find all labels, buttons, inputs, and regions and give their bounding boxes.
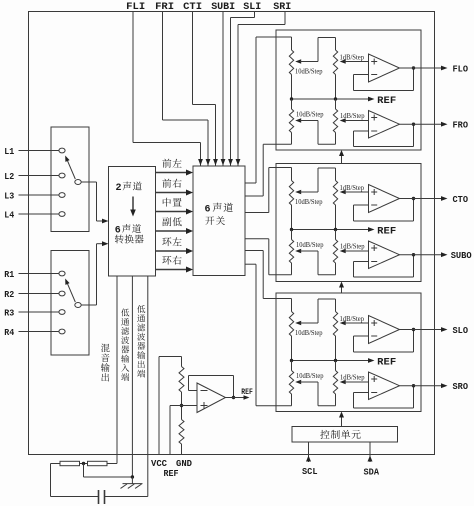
svg-text:10dB/Step: 10dB/Step [296, 241, 324, 249]
svg-text:SRO: SRO [453, 381, 469, 392]
L input selector switch box [51, 127, 89, 232]
wire feedback SRO [354, 384, 416, 408]
wire SLI input to switch [228, 12, 254, 166]
L selector common pole contact [75, 180, 81, 185]
op-amp buffer FLO [369, 54, 400, 82]
wiper tap CTO fine to op-amp [340, 190, 369, 194]
svg-text:SUBO: SUBO [451, 250, 472, 261]
wire feedback REF buffer [189, 376, 236, 400]
svg-text:2: 2 [116, 183, 122, 194]
svg-text:REF: REF [377, 96, 396, 107]
wire SRO input line [256, 405, 292, 407]
op-amp buffer SUBO [369, 241, 400, 269]
wiper tap FLO coarse [295, 38, 335, 64]
node REF rail group 3 [290, 357, 396, 368]
output CTO with pin label [400, 194, 469, 205]
svg-text:R4: R4 [4, 327, 14, 338]
node REF output [226, 388, 253, 400]
wire feedback SUBO [354, 253, 416, 277]
wiper tap SUBO coarse [295, 249, 335, 275]
wire SUBI input to switch [221, 12, 226, 166]
wire CTO input line [269, 168, 292, 181]
wire SRO pot tops to REF rail [292, 361, 336, 371]
op-amp buffer CTO [369, 185, 400, 213]
volume group 1 box [276, 30, 421, 150]
pin L3 with lead and contact [4, 190, 65, 201]
node REF rail group 2 [290, 226, 396, 237]
resistor divider lower (node to GND) [179, 406, 184, 455]
output SRO with pin label [400, 381, 469, 392]
pin R1 with lead and contact [4, 269, 65, 280]
resistor 1dB/Step fine volume SLO [333, 312, 364, 361]
capacitor C1 external [99, 490, 105, 504]
wiper tap CTO coarse [295, 168, 335, 194]
wire VCC rail [159, 357, 182, 455]
pin label SUBI [211, 2, 235, 13]
svg-text:SLI: SLI [243, 2, 261, 13]
op-amp U4 REF buffer [197, 383, 226, 413]
wire feedback CTO [354, 197, 416, 221]
output SUBO with pin label [400, 250, 472, 261]
wire low-pass filter output line (低通滤波器输出端) [137, 276, 148, 497]
svg-text:10dB/Step: 10dB/Step [295, 198, 323, 206]
wire low-pass filter input line (低通滤波器输入端) [121, 276, 132, 477]
svg-text:6: 6 [115, 225, 121, 236]
svg-text:1dB/Step: 1dB/Step [340, 53, 365, 61]
ground symbol [121, 484, 143, 489]
pin label FRI [155, 2, 174, 13]
pin SCL with wire [302, 442, 318, 477]
resistor 10dB/Step coarse volume CTO [289, 181, 323, 230]
wire FLI input to switch [133, 12, 203, 166]
svg-text:FLI: FLI [126, 2, 145, 13]
svg-text:R1: R1 [4, 269, 14, 280]
pin label REF [164, 468, 179, 479]
wiper tap SRO coarse [295, 380, 335, 406]
svg-text:REF: REF [377, 226, 396, 237]
wiper tap SLO coarse [295, 299, 335, 325]
wire mix output line (混音输出) [101, 276, 117, 464]
wiper tap FLO fine to op-amp [340, 59, 369, 63]
svg-text:SDA: SDA [364, 466, 380, 477]
wiper tap SLO fine to op-amp [340, 321, 369, 325]
wire SRI input to switch [236, 12, 285, 166]
wire capacitor to filter output line [105, 496, 148, 498]
resistor 1dB/Step fine volume FLO [333, 50, 364, 99]
output FLO with pin label [400, 64, 469, 75]
resistor 10dB/Step coarse volume SLO [289, 312, 323, 361]
svg-text:SCL: SCL [302, 466, 318, 477]
pin label FLI [126, 2, 145, 13]
wiper tap FRO fine to op-amp [340, 118, 369, 122]
svg-text:1dB/Step: 1dB/Step [340, 243, 365, 251]
resistor divider upper (VCC to node) [179, 357, 184, 406]
wire SL switch output bus [245, 251, 263, 299]
pin L2 with lead and contact [4, 171, 65, 182]
svg-text:10dB/Step: 10dB/Step [296, 372, 324, 380]
wiper tap SRO fine to op-amp [340, 380, 369, 384]
op-amp buffer SLO [369, 316, 400, 344]
wire R1 to capacitor [51, 464, 99, 497]
wire R common to converter [81, 241, 108, 305]
node R1-R2 junction [80, 462, 88, 465]
svg-text:L3: L3 [4, 190, 14, 201]
control unit block (控制单元) [292, 427, 398, 443]
svg-text:FRI: FRI [155, 2, 174, 13]
svg-text:1dB/Step: 1dB/Step [340, 315, 365, 323]
volume group 3 box [276, 293, 421, 412]
resistor 10dB/Step coarse volume SRO [289, 371, 324, 406]
svg-text:REF: REF [241, 388, 253, 397]
wire channel row 前右 converter to switch [156, 179, 194, 196]
R selector wiper arm [65, 279, 75, 303]
wire channel row 前左 converter to switch [156, 159, 194, 176]
R selector common pole contact [75, 303, 81, 308]
wire feedback FLO [354, 66, 416, 90]
wire CTI input to switch [193, 12, 218, 166]
svg-text:10dB/Step: 10dB/Step [295, 67, 323, 75]
pin L4 with lead and contact [4, 209, 65, 220]
wire control bus group2 to group1 [339, 150, 344, 164]
pin label CTI [183, 2, 202, 13]
wiper tap SUBO fine to op-amp [340, 249, 369, 253]
wire L common to converter [81, 182, 108, 223]
pin label SLI [243, 2, 261, 13]
output SLO with pin label [400, 325, 469, 336]
svg-text:R3: R3 [4, 307, 14, 318]
wire SUBO input line [269, 274, 292, 276]
svg-text:10dB/Step: 10dB/Step [295, 329, 323, 337]
wiper tap FRO coarse [295, 118, 335, 144]
svg-text:1dB/Step: 1dB/Step [340, 112, 365, 120]
svg-text:R2: R2 [4, 289, 14, 300]
L selector wiper arm [65, 156, 75, 180]
resistor R1 external [60, 461, 80, 465]
R input selector switch box [51, 251, 89, 356]
svg-text:FRO: FRO [453, 120, 469, 131]
svg-text:CTO: CTO [453, 194, 469, 205]
svg-text:L4: L4 [4, 209, 14, 220]
op-amp buffer FRO [369, 111, 400, 139]
wire channel row 副低 converter to switch [156, 217, 194, 234]
svg-text:1dB/Step: 1dB/Step [340, 374, 365, 382]
output FRO with pin label [400, 120, 469, 131]
op-amp buffer SRO [369, 372, 400, 400]
wire FRO pot tops to REF rail [292, 99, 336, 109]
2ch to 6ch converter block (2声道→6声道转换器) [109, 167, 156, 277]
wire feedback FRO [354, 123, 416, 147]
resistor 1dB/Step fine volume SUBO [333, 240, 365, 264]
node divider midpoint to + input and REF pin [170, 404, 197, 455]
pin R2 with lead and contact [4, 289, 65, 300]
volume group 2 box [276, 164, 421, 282]
resistor 1dB/Step fine volume SRO [333, 371, 365, 395]
wire SR switch output bus [245, 264, 256, 406]
pin label SRI [273, 2, 291, 13]
6-channel switch block (6声道 开关) [193, 166, 245, 276]
wire feedback SLO [354, 328, 416, 352]
svg-text:L1: L1 [4, 146, 14, 157]
svg-text:1dB/Step: 1dB/Step [340, 184, 365, 192]
wire FL switch output bus [245, 37, 256, 183]
svg-text:10dB/Step: 10dB/Step [296, 111, 324, 119]
wire FRO input line [263, 143, 291, 145]
resistor 1dB/Step fine volume CTO [333, 181, 364, 230]
resistor 10dB/Step coarse volume FRO [289, 109, 324, 144]
pin label VCC [151, 458, 167, 469]
node REF rail group 1 [290, 96, 396, 107]
pin L1 with lead and contact [4, 146, 65, 157]
svg-text:FLO: FLO [453, 64, 469, 75]
wire channel row 环左 converter to switch [156, 237, 194, 254]
svg-text:REF: REF [164, 468, 179, 479]
wire SLO input line [263, 299, 291, 312]
svg-text:SRI: SRI [273, 2, 291, 13]
pin R3 with lead and contact [4, 307, 65, 318]
pin R4 with lead and contact [4, 327, 65, 338]
wire channel row 中置 converter to switch [156, 198, 194, 215]
wire SUBO pot tops to REF rail [292, 230, 336, 240]
wire junction branch to filter input node [84, 464, 135, 485]
resistor 10dB/Step coarse volume FLO [289, 50, 323, 99]
wire control bus control unit to group3 [339, 412, 344, 427]
chip boundary box U0 [29, 12, 435, 455]
wire CT switch output bus [245, 168, 269, 213]
svg-text:REF: REF [377, 357, 396, 368]
resistor 10dB/Step coarse volume SUBO [289, 240, 324, 275]
wire FLO input line [256, 37, 292, 50]
svg-text:6: 6 [205, 204, 211, 215]
resistor R2 external [88, 461, 108, 465]
wire FRI input to switch [163, 12, 211, 166]
svg-text:L2: L2 [4, 171, 14, 182]
pin SDA with wire [364, 442, 380, 477]
pin label GND [176, 458, 192, 469]
wire SUB switch output bus [245, 239, 269, 275]
svg-text:SLO: SLO [453, 325, 469, 336]
wire channel row 环右 converter to switch [156, 256, 194, 273]
wire FR switch output bus [245, 144, 263, 196]
wire control bus group3 to group2 [339, 282, 344, 294]
resistor 1dB/Step fine volume FRO [333, 109, 365, 133]
